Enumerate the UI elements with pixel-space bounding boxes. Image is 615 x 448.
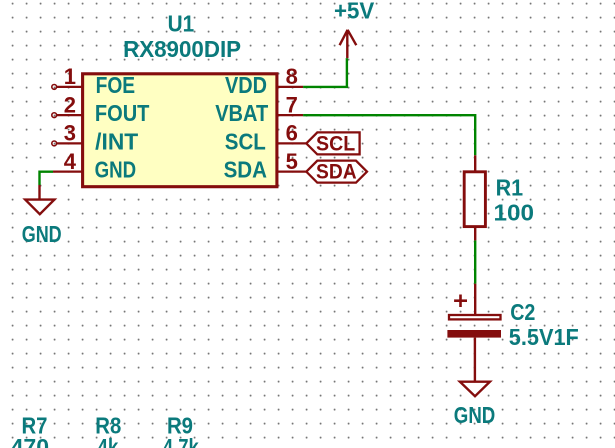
svg-text:SCL: SCL [225, 128, 266, 154]
svg-text:100: 100 [494, 199, 535, 225]
svg-text:GND: GND [22, 221, 62, 247]
svg-text:FOUT: FOUT [95, 100, 150, 126]
svg-text:GND: GND [454, 402, 496, 428]
svg-text:GND: GND [95, 157, 137, 183]
svg-text:+5V: +5V [334, 0, 374, 23]
svg-text:RX8900DIP: RX8900DIP [123, 36, 241, 62]
svg-text:/INT: /INT [95, 128, 138, 154]
svg-text:VDD: VDD [225, 72, 267, 98]
svg-text:R1: R1 [496, 174, 523, 200]
svg-text:4: 4 [64, 149, 77, 174]
svg-text:470: 470 [11, 434, 50, 448]
svg-text:8: 8 [286, 64, 298, 89]
svg-text:4k: 4k [97, 434, 118, 448]
svg-text:U1: U1 [168, 11, 195, 37]
svg-text:2: 2 [64, 92, 76, 117]
svg-text:7: 7 [286, 92, 298, 117]
svg-text:FOE: FOE [96, 72, 136, 98]
svg-text:C2: C2 [510, 299, 535, 325]
svg-text:3: 3 [64, 121, 76, 146]
svg-text:1: 1 [64, 64, 76, 89]
svg-text:4.7k: 4.7k [163, 434, 199, 448]
svg-text:SDA: SDA [224, 157, 267, 183]
svg-text:VBAT: VBAT [215, 100, 268, 126]
svg-text:5.5V1F: 5.5V1F [509, 324, 579, 350]
svg-text:SCL: SCL [316, 132, 355, 155]
svg-text:5: 5 [286, 149, 298, 174]
svg-text:SDA: SDA [316, 161, 357, 184]
svg-text:6: 6 [286, 121, 298, 146]
